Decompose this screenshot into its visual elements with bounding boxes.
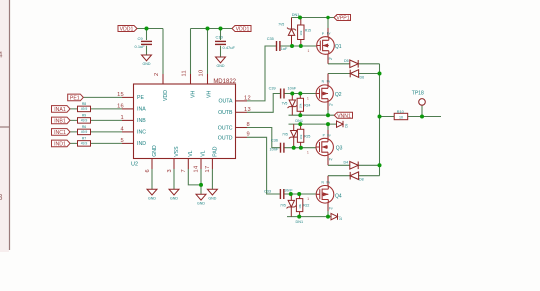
svg-text:INB1: INB1 [54, 119, 66, 125]
svg-text:7V5: 7V5 [278, 22, 284, 26]
svg-text:PE: PE [137, 95, 144, 101]
svg-text:1: 1 [307, 97, 309, 101]
svg-text:1: 1 [307, 151, 309, 155]
svg-text:GND: GND [208, 197, 216, 201]
svg-text:OUTB: OUTB [218, 110, 233, 116]
svg-text:D5: D5 [344, 59, 349, 63]
svg-text:10: 10 [399, 116, 403, 120]
svg-text:1: 1 [308, 49, 310, 53]
svg-text:10: 10 [199, 70, 205, 77]
svg-text:INA1: INA1 [54, 107, 66, 113]
svg-text:VL: VL [200, 150, 206, 156]
svg-text:5: 5 [121, 138, 124, 144]
svg-text:GND: GND [170, 197, 178, 201]
svg-text:N: N [322, 80, 325, 84]
svg-text:D8: D8 [359, 178, 364, 182]
svg-text:R25: R25 [304, 134, 310, 138]
svg-text:13: 13 [244, 107, 251, 113]
svg-text:C9: C9 [138, 36, 144, 41]
svg-text:9: 9 [247, 132, 250, 138]
svg-text:IND: IND [137, 141, 146, 147]
svg-text:VSS: VSS [174, 146, 180, 157]
svg-text:7V5: 7V5 [282, 102, 288, 106]
svg-text:R15: R15 [305, 28, 311, 32]
svg-text:VPP1: VPP1 [336, 16, 349, 22]
svg-text:OUTA: OUTA [218, 99, 233, 105]
svg-text:Fv: Fv [327, 133, 331, 137]
svg-text:Q1: Q1 [335, 44, 342, 50]
svg-text:3: 3 [167, 169, 173, 172]
svg-text:1: 1 [121, 115, 124, 121]
svg-text:Fv: Fv [327, 32, 331, 36]
svg-text:10k: 10k [299, 30, 303, 35]
svg-text:PAD: PAD [212, 146, 218, 157]
svg-text:6: 6 [145, 169, 151, 172]
svg-text:R8: R8 [82, 102, 86, 106]
svg-text:Q4: Q4 [335, 194, 342, 200]
svg-text:Q2: Q2 [335, 92, 342, 98]
svg-text:TP18: TP18 [412, 91, 424, 97]
svg-text:OUTD: OUTD [218, 136, 233, 142]
svg-text:8: 8 [247, 122, 250, 128]
svg-text:10nF: 10nF [288, 87, 297, 91]
svg-text:12: 12 [244, 96, 251, 102]
svg-text:INC1: INC1 [54, 130, 66, 136]
svg-text:Fv: Fv [329, 57, 333, 61]
svg-text:D4: D4 [344, 160, 349, 164]
svg-text:GND: GND [197, 202, 205, 206]
svg-text:VH: VH [190, 91, 196, 98]
svg-text:7V5: 7V5 [282, 133, 288, 137]
svg-text:GND: GND [152, 145, 158, 157]
svg-text:C33: C33 [264, 189, 271, 193]
svg-text:GND: GND [143, 62, 151, 66]
svg-text:1: 1 [307, 197, 309, 201]
svg-text:0.47uF: 0.47uF [223, 45, 236, 50]
svg-text:C35: C35 [267, 37, 274, 41]
svg-text:49.9: 49.9 [81, 107, 88, 111]
svg-text:49.9: 49.9 [81, 142, 88, 146]
svg-text:10k: 10k [298, 203, 302, 208]
svg-text:14: 14 [194, 166, 200, 173]
svg-text:VL: VL [188, 150, 194, 156]
svg-text:R10: R10 [397, 110, 404, 114]
svg-text:C10: C10 [216, 35, 224, 40]
svg-text:49.9: 49.9 [81, 130, 88, 134]
svg-text:Fv: Fv [329, 103, 333, 107]
svg-text:49.9: 49.9 [81, 119, 88, 123]
svg-text:DN1: DN1 [296, 220, 304, 224]
svg-text:7: 7 [181, 169, 187, 172]
svg-text:10k: 10k [299, 134, 303, 139]
svg-text:GND: GND [217, 64, 225, 68]
svg-text:INA: INA [137, 107, 146, 113]
svg-text:OUTC: OUTC [218, 125, 233, 131]
svg-text:D6: D6 [360, 76, 365, 80]
svg-text:D9: D9 [345, 123, 349, 127]
svg-text:C36: C36 [271, 138, 278, 142]
svg-text:Fv: Fv [329, 157, 333, 161]
svg-text:11: 11 [182, 70, 188, 77]
svg-text:IND1: IND1 [54, 142, 66, 148]
svg-text:PE1: PE1 [70, 96, 80, 102]
svg-text:VDD1: VDD1 [236, 27, 250, 33]
svg-text:17: 17 [205, 166, 211, 173]
svg-text:R7: R7 [82, 137, 86, 141]
svg-text:P: P [323, 134, 325, 138]
svg-text:0.1uF: 0.1uF [135, 44, 146, 49]
svg-text:Fv: Fv [327, 180, 331, 184]
svg-text:Fv: Fv [329, 206, 333, 210]
svg-text:10nF: 10nF [284, 188, 293, 192]
svg-text:C39: C39 [269, 87, 276, 91]
svg-text:DN1: DN1 [292, 13, 300, 17]
svg-text:VNN1: VNN1 [337, 113, 351, 119]
svg-text:4: 4 [121, 126, 124, 132]
svg-text:10k: 10k [299, 103, 303, 108]
svg-text:R6: R6 [82, 125, 86, 129]
svg-text:P: P [322, 32, 324, 36]
svg-text:2: 2 [154, 73, 160, 76]
svg-text:Fv: Fv [327, 80, 331, 84]
svg-text:N: N [322, 181, 325, 185]
svg-text:VDD: VDD [163, 90, 169, 101]
svg-text:Q3: Q3 [336, 145, 343, 151]
svg-text:D7: D7 [339, 216, 343, 220]
svg-text:R9: R9 [82, 114, 86, 118]
svg-text:R22: R22 [303, 203, 309, 207]
svg-text:7V5: 7V5 [280, 203, 286, 207]
svg-text:1uF: 1uF [281, 47, 288, 51]
svg-text:VDD1: VDD1 [120, 27, 134, 33]
svg-text:U2: U2 [131, 162, 138, 168]
svg-text:GND: GND [148, 197, 156, 201]
svg-text:10nF: 10nF [270, 148, 279, 152]
svg-text:16: 16 [117, 103, 124, 109]
svg-text:VH: VH [206, 91, 212, 98]
svg-text:DN1: DN1 [295, 119, 303, 123]
svg-text:15: 15 [117, 92, 124, 98]
svg-text:MD1822: MD1822 [213, 79, 236, 85]
svg-text:INB: INB [137, 118, 146, 124]
svg-text:R24: R24 [304, 104, 310, 108]
svg-text:INC: INC [137, 130, 146, 136]
